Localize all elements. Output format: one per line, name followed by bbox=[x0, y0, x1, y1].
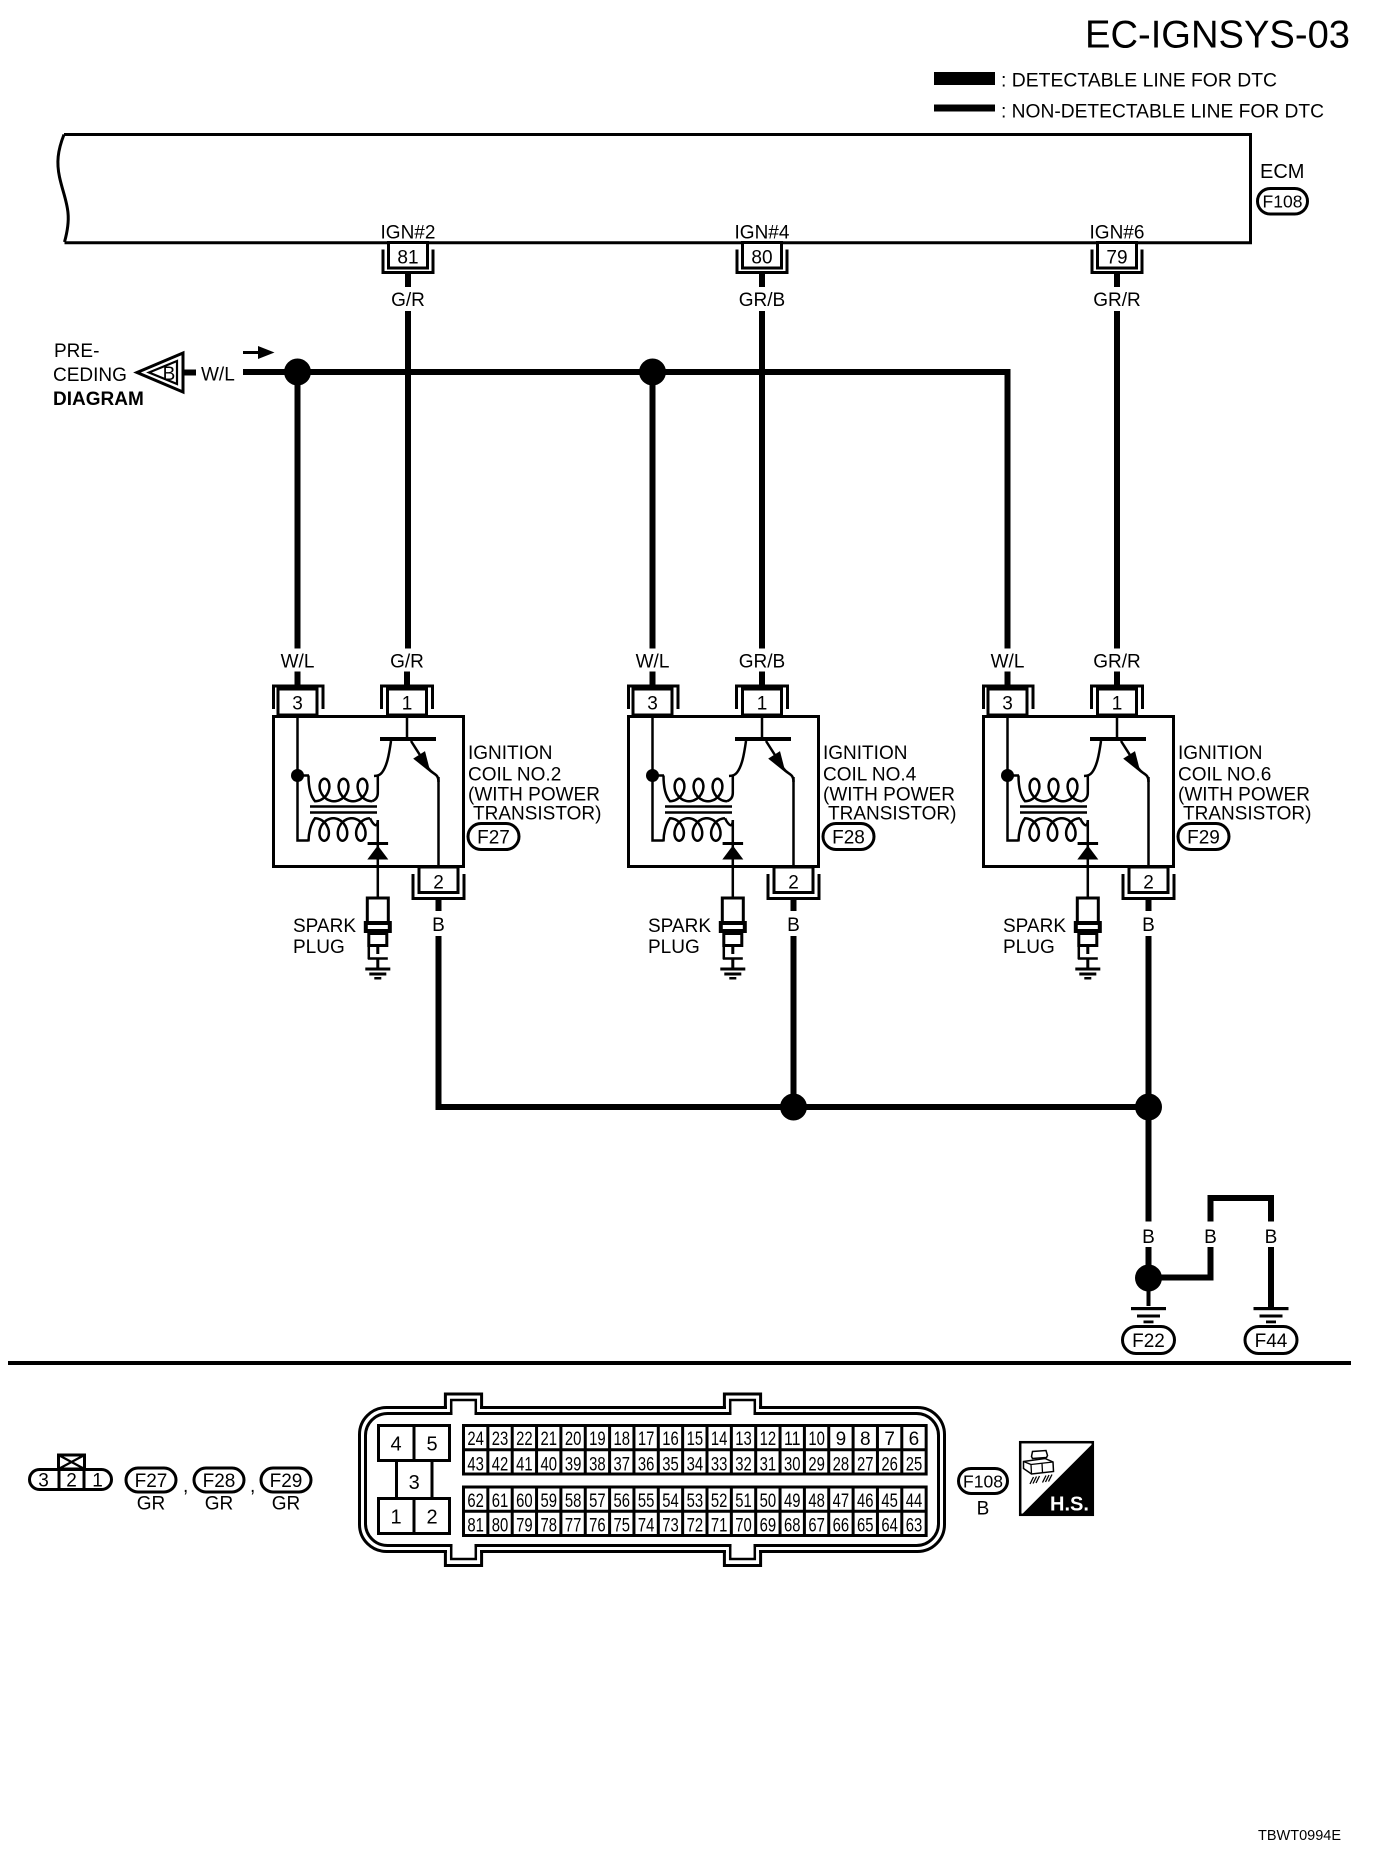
svg-text:51: 51 bbox=[735, 1491, 752, 1512]
svg-text:58: 58 bbox=[565, 1491, 582, 1512]
svg-text:GR/R: GR/R bbox=[1093, 290, 1141, 311]
svg-text:IGNITION: IGNITION bbox=[468, 743, 552, 764]
svg-text:19: 19 bbox=[589, 1429, 606, 1450]
svg-text:72: 72 bbox=[687, 1516, 704, 1537]
svg-text:8: 8 bbox=[860, 1429, 871, 1450]
svg-text:79: 79 bbox=[1106, 248, 1127, 269]
svg-text:2: 2 bbox=[426, 1507, 437, 1529]
svg-text:71: 71 bbox=[711, 1516, 728, 1537]
svg-text:DIAGRAM: DIAGRAM bbox=[53, 389, 144, 410]
svg-text:PLUG: PLUG bbox=[1003, 937, 1055, 958]
svg-text:18: 18 bbox=[614, 1429, 631, 1450]
svg-text:25: 25 bbox=[906, 1455, 923, 1476]
svg-text:COIL NO.2: COIL NO.2 bbox=[468, 765, 561, 786]
svg-text:39: 39 bbox=[565, 1455, 582, 1476]
svg-text:GR/B: GR/B bbox=[739, 290, 785, 311]
svg-text:B: B bbox=[1142, 915, 1155, 936]
svg-text:TRANSISTOR): TRANSISTOR) bbox=[1183, 804, 1311, 825]
svg-text:ECM: ECM bbox=[1260, 161, 1304, 183]
svg-text:9: 9 bbox=[836, 1429, 847, 1450]
svg-text:B: B bbox=[1142, 1227, 1155, 1248]
svg-text:,: , bbox=[250, 1476, 255, 1497]
svg-text:F27: F27 bbox=[477, 827, 510, 848]
svg-text:56: 56 bbox=[614, 1491, 631, 1512]
svg-text:B: B bbox=[1265, 1227, 1278, 1248]
svg-text:48: 48 bbox=[808, 1491, 825, 1512]
svg-text:30: 30 bbox=[784, 1455, 801, 1476]
svg-text:W/L: W/L bbox=[636, 652, 670, 673]
svg-text:21: 21 bbox=[540, 1429, 557, 1450]
svg-text:B: B bbox=[432, 915, 445, 936]
svg-text:11: 11 bbox=[784, 1429, 801, 1450]
svg-text:24: 24 bbox=[467, 1429, 484, 1450]
svg-text:41: 41 bbox=[516, 1455, 533, 1476]
svg-text:15: 15 bbox=[687, 1429, 704, 1450]
svg-text:F27: F27 bbox=[135, 1471, 168, 1492]
svg-text:TRANSISTOR): TRANSISTOR) bbox=[828, 804, 956, 825]
svg-text:44: 44 bbox=[906, 1491, 923, 1512]
svg-text:F22: F22 bbox=[1132, 1331, 1165, 1352]
svg-text:2: 2 bbox=[788, 873, 799, 894]
svg-text:F28: F28 bbox=[832, 827, 865, 848]
svg-text:B: B bbox=[977, 1499, 990, 1520]
svg-text:62: 62 bbox=[467, 1491, 484, 1512]
svg-text:1: 1 bbox=[757, 694, 768, 715]
svg-text:13: 13 bbox=[735, 1429, 752, 1450]
svg-text:F29: F29 bbox=[1187, 827, 1220, 848]
svg-text:37: 37 bbox=[614, 1455, 631, 1476]
svg-text:H.S.: H.S. bbox=[1050, 1494, 1089, 1516]
svg-text:36: 36 bbox=[638, 1455, 655, 1476]
svg-text:SPARK: SPARK bbox=[648, 916, 711, 937]
svg-text:: DETECTABLE LINE FOR DTC: : DETECTABLE LINE FOR DTC bbox=[1001, 70, 1277, 92]
svg-text:W/L: W/L bbox=[281, 652, 315, 673]
svg-text:GR/R: GR/R bbox=[1093, 652, 1141, 673]
svg-text:57: 57 bbox=[589, 1491, 606, 1512]
svg-text:4: 4 bbox=[390, 1434, 401, 1456]
svg-text:3: 3 bbox=[292, 694, 303, 715]
svg-text:,: , bbox=[183, 1476, 188, 1497]
svg-text:IGN#2: IGN#2 bbox=[381, 223, 436, 244]
svg-text:32: 32 bbox=[735, 1455, 752, 1476]
svg-text:46: 46 bbox=[857, 1491, 874, 1512]
svg-text:38: 38 bbox=[589, 1455, 606, 1476]
svg-text:31: 31 bbox=[760, 1455, 777, 1476]
svg-text:74: 74 bbox=[638, 1516, 655, 1537]
svg-text:GR/B: GR/B bbox=[739, 652, 785, 673]
svg-text:20: 20 bbox=[565, 1429, 582, 1450]
svg-text:27: 27 bbox=[857, 1455, 874, 1476]
svg-text:2: 2 bbox=[1143, 873, 1154, 894]
svg-text:40: 40 bbox=[540, 1455, 557, 1476]
svg-text:75: 75 bbox=[614, 1516, 631, 1537]
svg-text:TRANSISTOR): TRANSISTOR) bbox=[473, 804, 601, 825]
svg-text:67: 67 bbox=[808, 1516, 825, 1537]
svg-text:B: B bbox=[787, 915, 800, 936]
svg-text:49: 49 bbox=[784, 1491, 801, 1512]
svg-text:68: 68 bbox=[784, 1516, 801, 1537]
svg-text:16: 16 bbox=[662, 1429, 679, 1450]
svg-text:66: 66 bbox=[833, 1516, 850, 1537]
svg-text:W/L: W/L bbox=[991, 652, 1025, 673]
svg-text:G/R: G/R bbox=[390, 652, 424, 673]
svg-text:23: 23 bbox=[492, 1429, 509, 1450]
svg-text:70: 70 bbox=[735, 1516, 752, 1537]
svg-text:22: 22 bbox=[516, 1429, 533, 1450]
svg-text:G/R: G/R bbox=[391, 290, 425, 311]
svg-text:10: 10 bbox=[808, 1429, 825, 1450]
svg-text:PLUG: PLUG bbox=[648, 937, 700, 958]
svg-text:: NON-DETECTABLE LINE FOR DTC: : NON-DETECTABLE LINE FOR DTC bbox=[1001, 101, 1324, 123]
svg-text:34: 34 bbox=[687, 1455, 704, 1476]
svg-text:IGN#4: IGN#4 bbox=[735, 223, 790, 244]
svg-text:45: 45 bbox=[881, 1491, 898, 1512]
svg-text:60: 60 bbox=[516, 1491, 533, 1512]
svg-text:55: 55 bbox=[638, 1491, 655, 1512]
svg-text:F28: F28 bbox=[203, 1471, 236, 1492]
svg-text:2: 2 bbox=[433, 873, 444, 894]
svg-text:3: 3 bbox=[409, 1472, 420, 1494]
svg-text:53: 53 bbox=[687, 1491, 704, 1512]
svg-text:IGN#6: IGN#6 bbox=[1090, 223, 1145, 244]
svg-text:3: 3 bbox=[647, 694, 658, 715]
svg-text:GR: GR bbox=[205, 1494, 234, 1515]
svg-text:1: 1 bbox=[402, 694, 413, 715]
svg-text:61: 61 bbox=[492, 1491, 509, 1512]
svg-text:F29: F29 bbox=[270, 1471, 303, 1492]
svg-text:(WITH POWER: (WITH POWER bbox=[1178, 785, 1310, 806]
svg-text:29: 29 bbox=[808, 1455, 825, 1476]
svg-text:GR: GR bbox=[272, 1494, 301, 1515]
svg-text:3: 3 bbox=[38, 1471, 49, 1492]
svg-text:59: 59 bbox=[540, 1491, 557, 1512]
svg-text:TBWT0994E: TBWT0994E bbox=[1258, 1828, 1341, 1844]
svg-text:EC-IGNSYS-03: EC-IGNSYS-03 bbox=[1085, 14, 1350, 57]
svg-text:F44: F44 bbox=[1255, 1331, 1288, 1352]
svg-text:F108: F108 bbox=[1263, 192, 1303, 212]
svg-text:6: 6 bbox=[909, 1429, 920, 1450]
svg-text:COIL NO.6: COIL NO.6 bbox=[1178, 765, 1271, 786]
svg-text:17: 17 bbox=[638, 1429, 655, 1450]
svg-text:SPARK: SPARK bbox=[1003, 916, 1066, 937]
svg-text:43: 43 bbox=[467, 1455, 484, 1476]
svg-text:79: 79 bbox=[516, 1516, 533, 1537]
svg-text:3: 3 bbox=[1002, 694, 1013, 715]
svg-text:65: 65 bbox=[857, 1516, 874, 1537]
svg-text:26: 26 bbox=[881, 1455, 898, 1476]
svg-text:W/L: W/L bbox=[201, 365, 235, 386]
svg-text:50: 50 bbox=[760, 1491, 777, 1512]
svg-text:PRE-: PRE- bbox=[54, 341, 99, 362]
svg-text:42: 42 bbox=[492, 1455, 509, 1476]
svg-text:14: 14 bbox=[711, 1429, 728, 1450]
svg-text:80: 80 bbox=[492, 1516, 509, 1537]
svg-text:7: 7 bbox=[884, 1429, 895, 1450]
svg-text:80: 80 bbox=[751, 248, 772, 269]
svg-text:1: 1 bbox=[1112, 694, 1123, 715]
svg-text:CEDING: CEDING bbox=[53, 365, 127, 386]
svg-text:2: 2 bbox=[66, 1471, 77, 1492]
svg-text:GR: GR bbox=[137, 1494, 166, 1515]
svg-text:(WITH POWER: (WITH POWER bbox=[468, 785, 600, 806]
svg-text:28: 28 bbox=[833, 1455, 850, 1476]
svg-text:47: 47 bbox=[833, 1491, 850, 1512]
svg-text:SPARK: SPARK bbox=[293, 916, 356, 937]
svg-text:1: 1 bbox=[92, 1471, 103, 1492]
svg-text:12: 12 bbox=[760, 1429, 777, 1450]
svg-text:PLUG: PLUG bbox=[293, 937, 345, 958]
svg-text:IGNITION: IGNITION bbox=[823, 743, 907, 764]
svg-text:COIL NO.4: COIL NO.4 bbox=[823, 765, 917, 786]
svg-text:F108: F108 bbox=[963, 1471, 1003, 1491]
svg-text:63: 63 bbox=[906, 1516, 923, 1537]
svg-text:52: 52 bbox=[711, 1491, 728, 1512]
svg-text:B: B bbox=[1204, 1227, 1217, 1248]
svg-text:54: 54 bbox=[662, 1491, 679, 1512]
svg-text:81: 81 bbox=[467, 1516, 484, 1537]
svg-text:81: 81 bbox=[397, 248, 418, 269]
svg-text:35: 35 bbox=[662, 1455, 679, 1476]
svg-text:64: 64 bbox=[881, 1516, 898, 1537]
svg-text:33: 33 bbox=[711, 1455, 728, 1476]
svg-text:1: 1 bbox=[390, 1507, 401, 1529]
svg-text:76: 76 bbox=[589, 1516, 606, 1537]
svg-text:B: B bbox=[163, 364, 176, 385]
svg-text:69: 69 bbox=[760, 1516, 777, 1537]
svg-text:(WITH POWER: (WITH POWER bbox=[823, 785, 955, 806]
svg-text:78: 78 bbox=[540, 1516, 557, 1537]
svg-text:5: 5 bbox=[426, 1434, 437, 1456]
svg-text:IGNITION: IGNITION bbox=[1178, 743, 1262, 764]
svg-text:73: 73 bbox=[662, 1516, 679, 1537]
svg-text:77: 77 bbox=[565, 1516, 582, 1537]
